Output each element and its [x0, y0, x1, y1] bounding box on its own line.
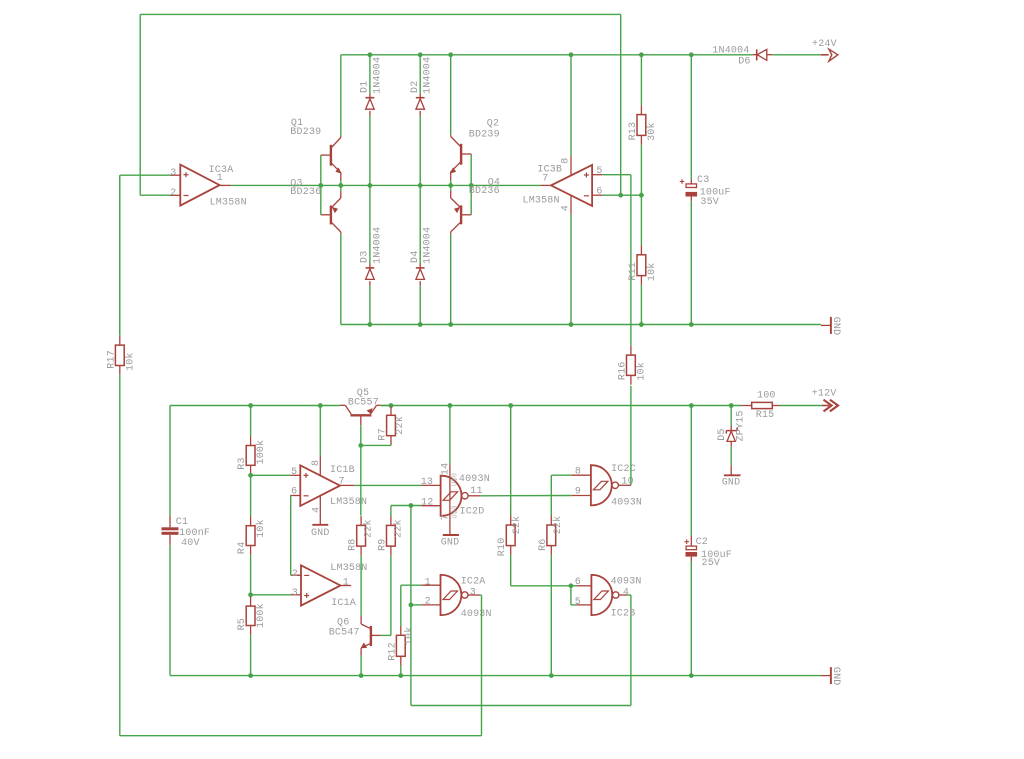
svg-text:1N4004: 1N4004: [423, 227, 434, 264]
node C2 gnd junction: [689, 673, 694, 678]
node pin12 junction: [409, 503, 414, 508]
svg-text:IC3B: IC3B: [537, 165, 562, 176]
node bases-right junction: [469, 183, 474, 188]
svg-text:1N4004: 1N4004: [423, 57, 434, 94]
svg-text:R6: R6: [538, 538, 549, 550]
svg-text:10k: 10k: [404, 627, 416, 646]
svg-text:GND: GND: [441, 537, 460, 548]
svg-text:BD239: BD239: [290, 127, 321, 138]
svg-text:IC2A: IC2A: [461, 576, 486, 587]
node D1 mid junction: [368, 183, 373, 188]
svg-text:5: 5: [575, 597, 581, 608]
node D1 top junction: [368, 52, 373, 57]
svg-text:22k: 22k: [394, 416, 406, 435]
svg-text:5: 5: [291, 467, 297, 478]
op-amp IC3B: [523, 156, 603, 215]
wire net feedback top: [140, 14, 621, 195]
wire Q5 emitter rail: [381, 405, 391, 407]
node R7 top junction: [389, 403, 394, 408]
svg-text:6: 6: [291, 487, 297, 498]
svg-text:IC2D: IC2D: [460, 507, 485, 518]
transistor Q5: [340, 388, 381, 425]
svg-text:10k: 10k: [255, 519, 267, 538]
wire IC2C pin8: [551, 474, 571, 476]
svg-text:GND: GND: [830, 317, 841, 336]
wire emitters left: [340, 180, 342, 191]
node Q2 collector junction: [448, 52, 453, 57]
diode D3: [360, 185, 384, 324]
supply +24V arrow: [812, 39, 838, 61]
svg-text:22k: 22k: [363, 519, 375, 538]
svg-text:4: 4: [623, 588, 629, 599]
svg-text:D2: D2: [410, 81, 421, 93]
wire IC2A pin1 node: [401, 585, 422, 626]
svg-text:+24V: +24V: [812, 39, 837, 50]
svg-text:U$0: U$0: [452, 473, 460, 486]
svg-text:4093N: 4093N: [459, 474, 490, 485]
svg-text:10k: 10k: [635, 362, 647, 381]
wire IC1A pin3: [251, 594, 291, 596]
node emitters-right junction: [448, 183, 453, 188]
wire +12V rail: [381, 405, 741, 407]
svg-text:3: 3: [292, 588, 298, 599]
op-amp IC3A: [170, 165, 247, 209]
svg-text:R5: R5: [237, 618, 248, 630]
wire Q6 emitter: [360, 656, 362, 676]
svg-text:D5: D5: [717, 428, 728, 440]
svg-text:BD236: BD236: [290, 187, 321, 198]
svg-text:100k: 100k: [255, 440, 267, 465]
resistor R17: [106, 175, 136, 736]
wire IC3A pin3 to R17: [120, 175, 171, 335]
svg-text:30k: 30k: [646, 122, 658, 141]
svg-text:R7: R7: [378, 428, 389, 440]
svg-text:4093N: 4093N: [611, 576, 642, 587]
transistor Q4: [451, 177, 500, 233]
diode D6: [712, 46, 772, 68]
node D2 top junction: [418, 52, 423, 57]
wire IC2B out net: [411, 506, 631, 706]
resistor R5: [237, 597, 267, 676]
resistor R16: [617, 346, 647, 385]
svg-text:2: 2: [425, 597, 431, 608]
svg-text:4093N: 4093N: [461, 609, 492, 620]
svg-text:22k: 22k: [511, 516, 523, 535]
svg-text:22k: 22k: [392, 519, 404, 538]
svg-text:4093N: 4093N: [611, 498, 642, 509]
ground IC1B pin4: [311, 496, 330, 539]
svg-text:25V: 25V: [702, 558, 721, 569]
svg-text:14: 14: [440, 463, 451, 475]
svg-text:IC1A: IC1A: [331, 598, 356, 609]
svg-text:1: 1: [425, 577, 431, 588]
svg-text:GND: GND: [830, 667, 841, 686]
diode D5: [730, 406, 732, 427]
svg-text:8: 8: [311, 460, 322, 466]
capacitor C2: [685, 406, 733, 676]
svg-text:IC2B: IC2B: [611, 609, 636, 620]
svg-text:1N4004: 1N4004: [372, 57, 383, 94]
svg-text:BD239: BD239: [469, 130, 500, 141]
svg-text:GND: GND: [722, 478, 741, 489]
wire Q6 base to R9: [380, 634, 391, 636]
svg-text:D4: D4: [410, 251, 421, 263]
wire Q2 Q4 bases: [470, 154, 472, 215]
svg-text:13: 13: [421, 477, 433, 488]
ground D5: [722, 465, 741, 488]
wire IC1B out to IC2D pin13: [354, 484, 421, 486]
svg-text:10k: 10k: [124, 352, 136, 371]
wire Q4 collector: [450, 234, 452, 325]
resistor R11: [628, 145, 658, 325]
svg-text:R17: R17: [106, 350, 117, 369]
svg-text:IC1B: IC1B: [330, 465, 355, 476]
node IC2B pin6 junction: [569, 583, 574, 588]
svg-text:1N4004: 1N4004: [372, 227, 383, 264]
wire VCC switched rail: [170, 405, 340, 407]
resistor R13: [628, 55, 658, 145]
svg-text:R9: R9: [377, 538, 388, 550]
resistor R15: [741, 391, 779, 421]
svg-text:D6: D6: [738, 57, 750, 68]
node pin6 feedback junction: [618, 193, 623, 198]
resistor R9: [377, 506, 404, 636]
svg-text:2: 2: [292, 569, 298, 580]
node D4 gnd junction: [418, 322, 423, 327]
supply +12V arrow: [780, 388, 839, 411]
node IC3B pin8 junction: [569, 52, 574, 57]
ground bottom right: [821, 667, 841, 686]
resistor R3: [237, 406, 267, 476]
ground IC2D pin7: [441, 535, 460, 548]
resistor R7: [378, 406, 407, 446]
svg-text:2: 2: [170, 188, 176, 199]
svg-text:C2: C2: [696, 537, 708, 548]
svg-text:3: 3: [170, 168, 176, 179]
node emitters-left junction: [338, 183, 343, 188]
node R3 top junction: [248, 403, 253, 408]
wire IC2D pin14: [449, 406, 451, 465]
svg-text:C1: C1: [176, 517, 188, 528]
svg-text:C3: C3: [697, 175, 709, 186]
svg-text:IC2C: IC2C: [611, 464, 636, 475]
nand IC2D: [421, 463, 490, 535]
svg-text:5: 5: [596, 166, 602, 177]
node IC3B pin4 gnd junction: [569, 322, 574, 327]
nand IC2C: [571, 464, 642, 509]
wire node base-drive mid rail: [231, 184, 540, 186]
wire IC3B pin4: [570, 215, 572, 325]
wire GND rail bottom: [170, 675, 821, 677]
svg-text:7: 7: [542, 174, 548, 185]
node R11 gnd junction: [639, 322, 644, 327]
resistor R12: [387, 626, 415, 676]
svg-text:R4: R4: [237, 542, 248, 554]
nand IC2A: [421, 575, 491, 620]
svg-text:1: 1: [343, 578, 349, 589]
svg-text:LM358N: LM358N: [330, 563, 367, 574]
wire IC2B out corner: [627, 594, 631, 596]
wire IC2A out to feedback: [120, 595, 482, 736]
svg-text:35V: 35V: [700, 197, 719, 208]
node Q6 emitter gnd junction: [359, 673, 364, 678]
svg-text:U$0: U$0: [452, 505, 460, 518]
svg-text:1N4004: 1N4004: [712, 46, 749, 57]
node IC1B pin5 junction: [248, 473, 253, 478]
wire emitters right: [450, 180, 452, 191]
svg-text:1: 1: [217, 173, 223, 184]
svg-text:9: 9: [575, 487, 581, 498]
svg-text:LM358N: LM358N: [523, 196, 560, 207]
op-amp IC1B: [290, 406, 367, 514]
svg-text:7: 7: [338, 476, 344, 487]
svg-text:R11: R11: [628, 262, 639, 281]
svg-text:100k: 100k: [255, 603, 267, 628]
svg-text:GND: GND: [311, 528, 330, 539]
svg-text:8: 8: [560, 158, 571, 164]
svg-text:7: 7: [440, 514, 451, 520]
svg-text:3: 3: [470, 588, 476, 599]
svg-text:BC547: BC547: [329, 628, 360, 639]
wire Q1 Q3 bases: [320, 155, 322, 215]
wire IC3B pin8: [570, 55, 572, 156]
diode D1: [360, 55, 384, 186]
wire IC1B pin5: [251, 474, 291, 476]
svg-text:100: 100: [757, 391, 776, 402]
node IC1A pin3 junction: [248, 592, 253, 597]
nand IC2B: [575, 575, 642, 620]
svg-text:BC557: BC557: [348, 397, 379, 408]
svg-text:R3: R3: [237, 457, 248, 469]
node R13 top junction: [639, 52, 644, 57]
resistor R8: [348, 516, 375, 616]
transistor Q2: [451, 119, 500, 181]
svg-text:10k: 10k: [646, 262, 658, 281]
wire IC2D out to IC2C pin9: [480, 495, 571, 497]
wire IC2B pin5 jog: [571, 586, 577, 605]
node pin6 divider junction: [639, 193, 644, 198]
node R6 gnd junction: [549, 673, 554, 678]
node R12 gnd junction: [398, 673, 403, 678]
zener D5 symbol: [717, 410, 747, 465]
svg-text:LM358N: LM358N: [330, 497, 367, 508]
svg-text:R12: R12: [387, 642, 398, 661]
svg-text:D3: D3: [360, 251, 371, 263]
svg-text:12: 12: [421, 498, 433, 509]
resistor R4: [237, 475, 267, 595]
svg-text:40V: 40V: [181, 538, 200, 549]
op-amp IC1A: [291, 563, 368, 609]
svg-text:6: 6: [596, 186, 602, 197]
node IC2D pin14 junction: [448, 403, 453, 408]
svg-text:R13: R13: [628, 122, 639, 141]
wire Q3 collector: [340, 234, 342, 325]
transistor Q6: [329, 616, 381, 656]
wire GND rail top: [341, 324, 821, 326]
node D3 gnd junction: [368, 322, 373, 327]
node Q4 gnd junction: [448, 322, 453, 327]
node Q5 base junction: [358, 443, 363, 448]
svg-text:Q2: Q2: [487, 119, 499, 130]
svg-text:R10: R10: [497, 538, 508, 557]
node R5 gnd junction: [248, 673, 253, 678]
svg-text:ZPY15: ZPY15: [736, 410, 747, 441]
node IC2A pin2 junction: [409, 603, 414, 608]
transistor Q3: [290, 178, 341, 233]
svg-text:R16: R16: [617, 361, 628, 380]
node D5 top junction: [729, 403, 734, 408]
diode D2: [410, 55, 434, 186]
wire +24V rail: [341, 54, 821, 56]
node bases-left junction: [318, 183, 323, 188]
wire IC2C out to R16: [630, 386, 632, 486]
ground top right: [821, 317, 841, 336]
wire IC2D pin12: [391, 505, 422, 507]
node R10 top junction: [508, 403, 513, 408]
wire Q2 collector: [450, 55, 452, 135]
node IC1B pin8 junction: [318, 403, 323, 408]
transistor Q1: [290, 118, 341, 180]
svg-text:10: 10: [621, 476, 633, 487]
resistor R6: [538, 475, 564, 675]
wire IC3B pin6: [602, 194, 641, 196]
capacitor C1: [162, 406, 211, 676]
svg-text:BD236: BD236: [469, 186, 500, 197]
node C2 top junction: [689, 403, 694, 408]
svg-text:22k: 22k: [552, 516, 564, 535]
svg-text:4: 4: [560, 205, 571, 211]
svg-text:8: 8: [575, 467, 581, 478]
svg-text:R8: R8: [348, 538, 359, 550]
svg-text:+12V: +12V: [812, 388, 837, 399]
svg-text:R15: R15: [756, 410, 775, 421]
node C3 gnd junction: [689, 322, 694, 327]
wire IC3B pin5 to R16: [602, 175, 631, 346]
node D2 mid junction: [418, 183, 423, 188]
wire Q5 base node: [361, 425, 391, 515]
capacitor C3: [680, 55, 731, 325]
diode D4: [410, 185, 434, 324]
node C3 top junction: [689, 52, 694, 57]
resistor R10: [497, 406, 571, 586]
svg-text:LM358N: LM358N: [210, 197, 247, 208]
svg-text:D1: D1: [360, 81, 371, 93]
wire IC2A pin2: [411, 604, 421, 606]
wire Q1 collector: [340, 55, 342, 136]
wire IC1B pin6 to IC1A pin2: [290, 496, 301, 576]
